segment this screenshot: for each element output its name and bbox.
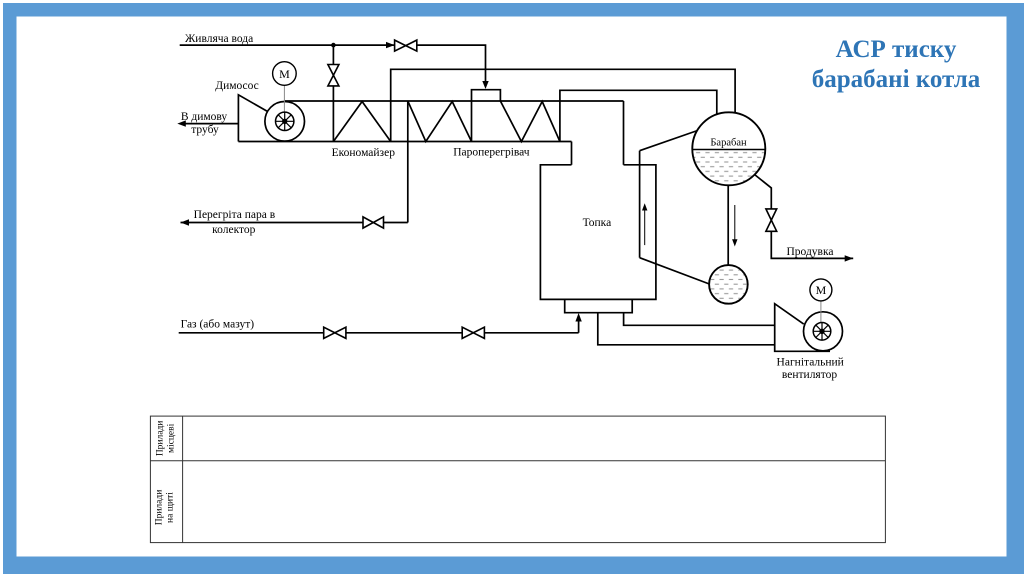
fan Нагнітальний вентилятор (forced draft) <box>775 279 843 351</box>
wire economizer outlet to drum <box>391 69 735 141</box>
drum Барабан <box>692 112 765 186</box>
duct bottom edge <box>238 141 571 143</box>
wire gas line <box>179 332 324 334</box>
svg-text:Економайзер: Економайзер <box>332 147 396 159</box>
svg-text:Прилади: Прилади <box>156 421 166 457</box>
air duct lower run <box>598 313 775 345</box>
valve V5 gas line 2 <box>462 327 484 338</box>
svg-text:Димосос: Димосос <box>215 80 259 92</box>
wire feed water main <box>180 44 395 46</box>
riser channel left edge <box>639 151 641 258</box>
air duct upper run <box>624 313 775 326</box>
svg-text:М: М <box>816 283 827 297</box>
economizer coil <box>333 102 390 142</box>
wire economizer inlet <box>332 86 334 142</box>
impeller <box>276 112 294 130</box>
furnace Топка walls <box>540 165 656 300</box>
flow arrow down in downcomer <box>734 205 736 242</box>
valve V4 gas line 1 <box>324 327 346 338</box>
junction node feed/economizer <box>331 43 336 48</box>
impeller <box>813 323 831 341</box>
arrow into valve V1 <box>386 42 395 48</box>
valve V2 to economizer (vertical) <box>328 65 339 86</box>
svg-text:Продувка: Продувка <box>786 246 833 258</box>
casing <box>238 95 267 142</box>
svg-text:Газ (або мазут): Газ (або мазут) <box>181 319 255 331</box>
wire gas riser to burner <box>578 317 580 333</box>
svg-text:місцеві: місцеві <box>167 423 177 453</box>
superheater left pipe down to steam line <box>407 101 409 223</box>
lower header circle <box>709 265 748 304</box>
svg-text:Перегріта пара в: Перегріта пара в <box>194 209 276 221</box>
fan Димосос (smoke exhauster) <box>238 62 304 142</box>
svg-text:Пароперегрівач: Пароперегрівач <box>453 146 530 158</box>
svg-text:Прилади: Прилади <box>155 490 165 526</box>
svg-text:барабані котла: барабані котла <box>812 66 981 93</box>
motor M circle <box>273 62 297 86</box>
motor stem <box>820 301 822 331</box>
burner pedestal <box>565 299 633 312</box>
casing <box>775 304 830 352</box>
valve V3 steam line (horizontal) <box>363 217 384 228</box>
valve V6 blowdown (vertical) <box>766 209 777 231</box>
wire drum downcomer <box>727 185 729 266</box>
valve V1 feed water (horizontal) <box>395 40 417 51</box>
svg-text:вентилятор: вентилятор <box>782 369 837 381</box>
motor stem <box>283 85 285 121</box>
svg-text:на щиті: на щиті <box>166 492 176 523</box>
svg-text:трубу: трубу <box>191 124 219 136</box>
arrow down into feed box <box>482 81 488 89</box>
svg-text:Топка: Топка <box>583 217 612 229</box>
svg-text:Живляча вода: Живляча вода <box>185 33 253 45</box>
svg-text:В димову: В димову <box>181 111 228 123</box>
wire feed water after valve <box>417 45 486 82</box>
duct to furnace right drop <box>623 101 625 165</box>
instrument table <box>150 416 885 542</box>
arrow up gas to burner <box>575 313 581 322</box>
downcomer diagonal to lower header <box>640 258 712 285</box>
svg-text:колектор: колектор <box>212 224 256 236</box>
svg-text:Барабан: Барабан <box>710 138 747 149</box>
arrow left smoke exit <box>177 120 186 126</box>
riser diagonal to drum <box>640 130 699 151</box>
svg-text:АСР тиску: АСР тиску <box>836 36 957 63</box>
svg-text:М: М <box>279 67 290 81</box>
superheater coil with feed nozzle <box>408 90 560 142</box>
wire blowdown from drum <box>755 175 772 209</box>
flow arrow up in riser channel <box>644 208 646 245</box>
arrow left steam collector <box>181 219 190 225</box>
wire superheater to drum <box>560 90 717 141</box>
motor M circle <box>810 279 832 301</box>
arrow right blowdown <box>845 255 854 261</box>
duct to furnace left drop <box>571 142 573 165</box>
wire branch to economizer valve <box>332 45 334 64</box>
wire smoke exit arrow line <box>184 123 238 125</box>
wire superheated steam to collector <box>181 222 364 224</box>
svg-text:Нагнітальний: Нагнітальний <box>777 357 844 369</box>
duct top edge <box>285 100 624 102</box>
